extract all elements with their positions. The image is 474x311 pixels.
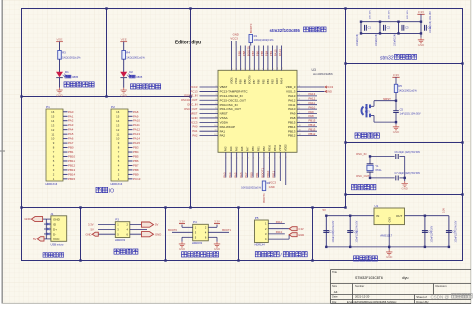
output bus wire	[405, 215, 449, 217]
capacitor C11 (output electrolytic)	[448, 216, 450, 247]
wire P5 pin1 PA14	[268, 223, 285, 225]
U3 bottom pin PA6 + wire	[241, 152, 243, 177]
U3 bottom pin PB10 + wire	[268, 152, 270, 177]
svg-text:PB2: PB2	[262, 146, 266, 151]
svg-text:C1: C1	[368, 26, 372, 30]
svg-text:VEE: VEE	[121, 38, 127, 42]
svg-text:AMS1117: AMS1117	[380, 234, 392, 238]
svg-text:PA13: PA13	[276, 230, 283, 234]
wire VEE to resistor	[123, 42, 125, 51]
resistor R3	[58, 51, 62, 60]
U3 top pin VSS_1 + wire	[235, 46, 237, 71]
wire resistor to LED	[123, 59, 125, 72]
power port GND (D1)	[56, 88, 62, 93]
svg-text:4: 4	[247, 157, 249, 158]
svg-text:J1: J1	[50, 212, 54, 216]
svg-text:PC13: PC13	[133, 177, 141, 181]
svg-text:6: 6	[299, 108, 300, 110]
svg-text:9: 9	[215, 121, 216, 123]
wire P5 pin4 to GND port	[268, 238, 289, 240]
svg-text:PB10: PB10	[68, 155, 76, 159]
svg-text:R5: R5	[398, 84, 402, 88]
svg-text:15: 15	[51, 114, 55, 118]
svg-text:3: 3	[242, 157, 244, 158]
svg-text:PB4: PB4	[133, 150, 139, 154]
svg-text:8: 8	[215, 116, 216, 118]
svg-text:11: 11	[116, 132, 119, 136]
svg-text:9: 9	[299, 121, 300, 123]
svg-text:9: 9	[272, 68, 274, 69]
svg-text:5: 5	[215, 103, 216, 105]
svg-text:File:: File:	[332, 300, 337, 304]
svg-text:GND: GND	[269, 185, 275, 189]
U3 top pin PB7 + wire	[253, 46, 255, 71]
svg-text:GND: GND	[120, 93, 126, 97]
svg-text:PA13: PA13	[133, 132, 140, 136]
svg-text:HDR1X4: HDR1X4	[255, 243, 266, 247]
svg-text:GND: GND	[86, 232, 92, 236]
svg-text:VBAT: VBAT	[220, 85, 228, 89]
svg-text:PB10: PB10	[267, 144, 271, 151]
svg-text:PA8: PA8	[133, 110, 139, 114]
svg-text:7: 7	[215, 112, 216, 114]
svg-text:BOOT1: BOOT1	[222, 228, 231, 232]
svg-text:VDD_3: VDD_3	[286, 85, 296, 89]
wire P5 pin2 to 3.3V port	[268, 228, 289, 230]
svg-text:GND: GND	[179, 247, 185, 251]
svg-text:PA1: PA1	[220, 129, 226, 133]
svg-text:PB13: PB13	[68, 168, 76, 172]
svg-text:PB1: PB1	[255, 172, 259, 178]
svg-text:PB6: PB6	[257, 79, 261, 84]
svg-text:PB5: PB5	[260, 50, 264, 56]
label: jiangya dianlu	[354, 256, 359, 261]
svg-text:PA5: PA5	[233, 172, 237, 178]
svg-text:3.3V: 3.3V	[298, 227, 304, 231]
svg-text:PB5: PB5	[133, 155, 139, 159]
svg-text:PB3: PB3	[269, 50, 273, 56]
svg-text:PB8: PB8	[242, 50, 246, 56]
port 3.3V (P5)	[289, 227, 297, 231]
svg-text:0805: 0805	[72, 75, 78, 79]
svg-text:3: 3	[215, 94, 216, 96]
label: dianyuan zhishideng	[64, 82, 69, 87]
svg-text:11: 11	[286, 156, 288, 158]
svg-text:PB9: PB9	[133, 172, 139, 176]
svg-text:5: 5	[254, 68, 256, 69]
svg-text:VCC3: VCC3	[190, 85, 198, 89]
svg-text:8: 8	[268, 68, 270, 69]
svg-text:D1: D1	[65, 70, 69, 74]
svg-text:STM32F103C8T6: STM32F103C8T6	[355, 276, 383, 280]
svg-text:PA4: PA4	[229, 146, 233, 151]
svg-text:10: 10	[214, 125, 216, 127]
svg-text:PB13: PB13	[288, 129, 296, 133]
svg-text:GND: GND	[53, 217, 61, 221]
svg-text:14: 14	[116, 119, 120, 123]
svg-text:VDD2: VDD2	[284, 144, 288, 151]
svg-text:10: 10	[299, 125, 301, 127]
svg-text:100uF(107) 10% 16V: 100uF(107) 10% 16V	[333, 220, 335, 242]
svg-text:10: 10	[277, 67, 279, 69]
svg-text:USB micro: USB micro	[51, 242, 64, 246]
svg-text:VCC3: VCC3	[230, 37, 238, 41]
svg-text:HDR1X16: HDR1X16	[46, 182, 58, 186]
svg-text:12: 12	[214, 134, 216, 136]
svg-text:D+: D+	[53, 227, 57, 231]
U3 top pin PB4 + wire	[267, 46, 269, 71]
svg-text:100nF(104) 16V: 100nF(104) 16V	[431, 225, 433, 242]
svg-text:PA3: PA3	[68, 123, 74, 127]
power port GND (D2)	[121, 88, 127, 93]
svg-text:5V: 5V	[155, 223, 159, 227]
junction dots on partitions	[105, 7, 107, 9]
svg-text:PB10: PB10	[266, 170, 270, 177]
svg-text:PA1: PA1	[68, 114, 74, 118]
svg-text:PB1: PB1	[256, 146, 260, 151]
svg-text:PC13-TAMPER-RTC: PC13-TAMPER-RTC	[220, 90, 249, 94]
svg-text:PA13: PA13	[288, 94, 295, 98]
svg-text:100nF(104): 100nF(104)	[357, 34, 359, 46]
push button S1 KEY	[373, 101, 375, 107]
svg-text:1: 1	[236, 68, 238, 69]
svg-text:OSC_OUT: OSC_OUT	[184, 107, 198, 111]
svg-text:GND: GND	[326, 89, 332, 93]
section partition lines	[21, 8, 463, 10]
svg-text:BOOT0: BOOT0	[168, 228, 177, 232]
svg-text:PA5: PA5	[235, 146, 239, 151]
label: waibu IO	[96, 187, 101, 192]
U3 bottom pin VDD_2 + wire	[285, 152, 287, 185]
power GND (decoupling)	[420, 33, 422, 37]
svg-text:NRST: NRST	[220, 112, 228, 116]
svg-text:1: 1	[299, 85, 300, 87]
capacitor C8 (input electrolytic)	[325, 216, 327, 247]
svg-text:4: 4	[215, 99, 216, 101]
svg-text:PC14-OSC32_IN: PC14-OSC32_IN	[220, 94, 243, 98]
svg-text:5V: 5V	[323, 208, 327, 212]
sheet zone tick	[0, 150, 5, 152]
svg-text:PA6: PA6	[239, 172, 243, 178]
svg-text:PB4: PB4	[265, 50, 269, 56]
svg-text:A4: A4	[334, 290, 338, 294]
svg-text:PD0-OSC_IN: PD0-OSC_IN	[220, 103, 238, 107]
svg-text:PA14: PA14	[133, 137, 140, 141]
LED D1	[56, 72, 63, 77]
svg-text:PB14: PB14	[309, 123, 316, 127]
svg-text:13: 13	[116, 123, 120, 127]
U3 top pin PB5 + wire	[262, 46, 264, 71]
svg-text:3.3V: 3.3V	[393, 73, 399, 77]
power GND (buck)	[388, 247, 390, 250]
U3 top pin PB3 + wire	[271, 46, 273, 71]
svg-text:PB0: PB0	[251, 146, 255, 151]
svg-text:PB9: PB9	[239, 79, 243, 84]
svg-text:PA7: PA7	[246, 146, 250, 151]
svg-text:VCC3: VCC3	[269, 180, 276, 184]
svg-text:PB3: PB3	[270, 79, 274, 84]
svg-text:10: 10	[280, 156, 282, 158]
svg-text:PA9: PA9	[309, 110, 315, 114]
svg-text:D-: D-	[53, 232, 56, 236]
svg-text:10KΩ(1002)±1%: 10KΩ(1002)±1%	[241, 186, 262, 190]
svg-text:PB15: PB15	[309, 119, 316, 123]
svg-text:100uF(107) 10% 16V: 100uF(107) 10% 16V	[455, 220, 457, 242]
svg-text:PA0-WKUP: PA0-WKUP	[220, 125, 235, 129]
wire LED to GND	[59, 78, 61, 88]
svg-text:stm32f103c8t6: stm32f103c8t6	[270, 28, 301, 33]
svg-text:PA0: PA0	[192, 125, 198, 129]
svg-text:BOOT0: BOOT0	[246, 46, 250, 56]
wire OSC_IN	[370, 155, 395, 157]
svg-text:3.3V: 3.3V	[418, 10, 424, 14]
U3 bottom pin PA7 + wire	[247, 152, 249, 177]
MCU U3 STM32F103C8T6	[218, 70, 297, 152]
svg-text:11: 11	[51, 132, 54, 136]
U3 top pin BOOT0 + wire	[249, 46, 251, 71]
svg-text:PA15: PA15	[274, 49, 278, 56]
label: danpian yingyongdeng	[131, 84, 136, 89]
svg-text:VCC3: VCC3	[190, 120, 198, 124]
U3 bottom pin PA4 + wire	[230, 152, 232, 177]
svg-text:GND: GND	[386, 255, 392, 259]
svg-text:PB15: PB15	[288, 120, 296, 124]
decoupling circuit: bottom bus wire	[361, 32, 421, 34]
svg-text:PB12: PB12	[288, 134, 296, 138]
svg-text:Title: Title	[332, 270, 337, 274]
wire R5 to NRST node	[395, 93, 397, 111]
svg-text:CSDN @: CSDN @	[431, 294, 450, 299]
svg-text:0805: 0805	[136, 75, 142, 79]
CSDN watermark	[431, 294, 473, 300]
svg-text:OUT: OUT	[396, 214, 403, 218]
svg-text:GND: GND	[155, 232, 161, 236]
svg-text:R3: R3	[62, 50, 66, 54]
svg-text:VEE: VEE	[56, 38, 62, 42]
svg-text:14: 14	[51, 119, 55, 123]
svg-text:VCC: VCC	[53, 237, 60, 241]
svg-text:PA10: PA10	[309, 105, 316, 109]
svg-text:Revision: Revision	[436, 284, 447, 288]
resistor R5	[394, 84, 397, 92]
svg-text:Size: Size	[332, 284, 338, 288]
svg-text:IN: IN	[376, 214, 379, 218]
wire key to bottom node	[373, 115, 375, 122]
svg-text:PA13: PA13	[309, 92, 316, 96]
svg-text:8: 8	[269, 157, 271, 158]
svg-text:E:\stm32f103c8t6\stm32f103c8t6: E:\stm32f103c8t6\stm32f103c8t6.SchDoc	[347, 300, 397, 304]
U3 top pin PB8 + wire	[244, 46, 246, 71]
svg-text:PA11: PA11	[288, 103, 295, 107]
svg-text:PA12: PA12	[133, 128, 140, 132]
svg-text:PC13: PC13	[191, 89, 198, 93]
capacitor C1	[360, 22, 362, 34]
port GND (P3 right row3)	[142, 232, 154, 237]
svg-text:HDR1X16: HDR1X16	[111, 182, 123, 186]
label: jingzhen dianlu	[352, 185, 357, 190]
svg-text:C7 22pF (220) 5% 50V: C7 22pF (220) 5% 50V	[395, 172, 421, 175]
svg-text:PA2: PA2	[192, 134, 198, 138]
crystal Y1 XTAL	[369, 156, 371, 163]
svg-text:PB11: PB11	[271, 171, 275, 178]
svg-text:BOOT0: BOOT0	[249, 23, 253, 33]
svg-text:7: 7	[263, 68, 265, 69]
U3 bottom pin PB0 + wire	[252, 152, 254, 177]
wire P4 row1 right to 3.3V	[208, 226, 217, 228]
capacitor C9 (input ceramic)	[349, 216, 351, 247]
capacitor C10 (output)	[424, 216, 426, 247]
svg-text:U1: U1	[375, 204, 379, 208]
svg-text:PB7: PB7	[133, 163, 139, 167]
wire LED to GND	[123, 78, 125, 88]
U3 top pin VDD_1 + wire	[231, 46, 233, 71]
svg-text:stm32f103c8t6: stm32f103c8t6	[313, 72, 333, 76]
svg-text:2: 2	[240, 68, 242, 69]
svg-text:P3: P3	[115, 217, 119, 221]
port GND (power input)	[39, 218, 44, 220]
label: shuchu dianyuan	[114, 249, 119, 254]
svg-text:U3: U3	[312, 68, 316, 72]
svg-text:PA14: PA14	[276, 220, 283, 224]
wire P4 row1 left to 3.3V	[182, 226, 193, 228]
U3 top pin PA15 + wire	[276, 46, 278, 71]
svg-text:OSC32_IN: OSC32_IN	[184, 94, 198, 98]
capacitor C6 (top, series on OSC_IN)	[395, 154, 397, 159]
svg-text:6: 6	[259, 68, 261, 69]
svg-text:Number: Number	[355, 284, 364, 288]
svg-text:R4: R4	[126, 50, 130, 54]
svg-text:HDR2X3: HDR2X3	[192, 241, 203, 245]
svg-text:12: 12	[116, 128, 120, 132]
svg-text:R2: R2	[267, 181, 271, 185]
svg-text:P1: P1	[46, 105, 50, 109]
svg-text:P2: P2	[111, 105, 115, 109]
svg-text:PA1: PA1	[192, 129, 198, 133]
svg-text:PB0: PB0	[68, 146, 74, 150]
svg-text:PA0: PA0	[68, 110, 74, 114]
svg-text:9: 9	[275, 157, 277, 158]
svg-text:NRST: NRST	[190, 111, 198, 115]
svg-text:PA12: PA12	[288, 98, 295, 102]
svg-text:GND: GND	[418, 43, 424, 47]
svg-text:VSS1: VSS1	[234, 77, 238, 84]
svg-text:1: 1	[215, 85, 216, 87]
svg-text:12: 12	[51, 128, 55, 132]
svg-text:PB15: PB15	[68, 177, 76, 181]
svg-text:stm32: stm32	[380, 55, 394, 61]
svg-text:5: 5	[253, 157, 255, 158]
svg-text:PB5: PB5	[261, 79, 265, 84]
svg-text:11: 11	[281, 67, 283, 69]
svg-text:OSC_IN: OSC_IN	[187, 103, 197, 107]
svg-text:6: 6	[258, 157, 260, 158]
svg-text:2: 2	[237, 157, 239, 158]
svg-text:2: 2	[299, 90, 300, 92]
svg-text:4: 4	[250, 68, 252, 69]
wire P4 row2 right BOOT1	[208, 231, 229, 233]
svg-text:GND: GND	[191, 116, 197, 120]
svg-text:PB12: PB12	[309, 132, 316, 136]
svg-text:VSS_3: VSS_3	[286, 90, 296, 94]
wire P4 row3 right to GND	[208, 236, 217, 238]
svg-text:0: 0	[226, 157, 228, 158]
svg-text:PC15-OSC32_OUT: PC15-OSC32_OUT	[220, 98, 247, 102]
svg-text:PA10: PA10	[133, 119, 140, 123]
U3 top pin PB9 + wire	[240, 46, 242, 71]
svg-text:PB6: PB6	[133, 159, 139, 163]
svg-text:0: 0	[231, 68, 233, 69]
svg-text:1nF(102) 10% 50V: 1nF(102) 10% 50V	[400, 112, 421, 115]
U3 bottom pin PA5 + wire	[236, 152, 238, 177]
svg-text:3: 3	[245, 68, 247, 69]
wire VEE to resistor	[59, 42, 61, 51]
svg-text:Y1: Y1	[375, 164, 379, 168]
svg-text:GND: GND	[393, 130, 399, 134]
wire OSC_OUT	[370, 177, 395, 179]
svg-text:3.3V: 3.3V	[443, 208, 446, 213]
svg-text:11: 11	[299, 130, 301, 132]
label: fuwei dianlu	[355, 133, 360, 138]
svg-text:16: 16	[51, 110, 55, 114]
svg-text:5: 5	[299, 103, 300, 105]
svg-text:PA3: PA3	[224, 146, 228, 151]
svg-text:OSC32_OUT: OSC32_OUT	[181, 98, 198, 102]
svg-text:PB3: PB3	[133, 146, 139, 150]
wire to GND (reset)	[395, 121, 397, 123]
U3 bottom pin PA3 + wire	[225, 152, 227, 177]
svg-text:12: 12	[299, 134, 301, 136]
svg-text:PB0: PB0	[250, 172, 254, 178]
port GND (P5)	[289, 233, 297, 237]
svg-text:P5: P5	[255, 216, 259, 220]
label: chengxu shaolu / tiaoshi jiekou	[255, 252, 260, 257]
svg-text:100nF(104) 10% 16V: 100nF(104) 10% 16V	[430, 11, 432, 33]
svg-text:1KΩ(1001)±1%: 1KΩ(1001)±1%	[126, 55, 145, 59]
capacitor C2	[379, 22, 381, 34]
input bus wire	[326, 215, 374, 217]
svg-text:7: 7	[299, 112, 300, 114]
svg-text:PA4: PA4	[228, 172, 232, 178]
capacitor C3	[398, 22, 400, 34]
svg-text:R1: R1	[254, 34, 258, 38]
sheet edge lines	[1, 0, 3, 304]
svg-text:PB8: PB8	[133, 168, 139, 172]
svg-text:XTAL: XTAL	[375, 168, 382, 172]
svg-text:100nF(104): 100nF(104)	[376, 34, 378, 46]
svg-text:PB7: PB7	[252, 79, 256, 84]
svg-text:C3: C3	[405, 26, 409, 30]
svg-text:PA14: PA14	[278, 49, 282, 56]
svg-text:PB14: PB14	[288, 125, 296, 129]
svg-text:5V: 5V	[33, 237, 37, 241]
port 5V (P3 right row1)	[142, 222, 154, 227]
svg-text:100nF(104) 10% 16V: 100nF(104) 10% 16V	[357, 220, 359, 242]
wire U1 GND down	[388, 225, 390, 247]
svg-text:Date:: Date:	[332, 295, 338, 299]
svg-text:KEY: KEY	[365, 109, 370, 113]
svg-text:16V 10%: 16V 10%	[389, 10, 391, 19]
svg-text:BOOT0: BOOT0	[248, 75, 252, 84]
svg-text:PA9: PA9	[133, 114, 139, 118]
svg-text:C2: C2	[387, 26, 391, 30]
svg-text:7: 7	[264, 157, 266, 158]
svg-text:PA11: PA11	[309, 101, 316, 105]
vertical bus to GND (crystal)	[404, 156, 406, 181]
svg-text:3.3V: 3.3V	[179, 220, 185, 224]
wire P4 row3 left to GND	[182, 236, 193, 238]
title block frame	[331, 270, 472, 304]
svg-text:16V 10%: 16V 10%	[370, 10, 372, 19]
